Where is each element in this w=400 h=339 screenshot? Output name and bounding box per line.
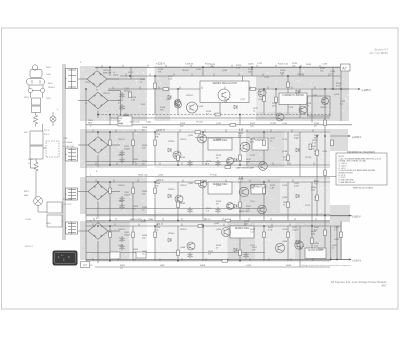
svg-text:Voltage (±) of each circuit is: Voltage (±) of each circuit is measured … [301,264,351,267]
svg-text:eff. 7 (sn B030): eff. 7 (sn B030) [370,51,388,55]
svg-text:Q408: Q408 [282,241,288,243]
svg-text:CR401: CR401 [118,229,125,231]
svg-text:VR210: VR210 [168,141,175,143]
svg-text:(225): (225) [113,75,118,77]
svg-text:T801: T801 [85,82,91,84]
svg-text:Q301: Q301 [188,183,194,185]
svg-text:C317: C317 [250,201,256,203]
svg-text:Section 4-7: Section 4-7 [374,48,388,52]
svg-text:VR131: VR131 [297,74,304,76]
svg-text:C105: C105 [140,104,146,106]
svg-text:C417: C417 [250,245,256,247]
svg-text:47µF: 47µF [294,186,300,188]
svg-text:Q206: Q206 [180,157,186,159]
svg-text:S801: S801 [24,97,30,99]
svg-text:TP8.6: TP8.6 [318,249,325,251]
svg-text:750µF: 750µF [124,235,131,237]
svg-text:C319: C319 [282,185,288,187]
svg-text:R133: R133 [306,64,312,66]
svg-text:C404: C404 [118,245,124,247]
svg-text:+100 V: +100 V [156,128,165,132]
svg-text:Q105: Q105 [222,70,228,72]
svg-text:Q103: Q103 [198,106,204,108]
svg-text:867: 867 [382,284,387,288]
svg-text:C219: C219 [282,139,288,141]
svg-text:T801: T801 [46,98,52,100]
svg-text:C230: C230 [322,151,328,153]
svg-text:R340 820: R340 820 [130,219,140,221]
svg-text:Q204: Q204 [216,139,222,141]
svg-text:C340: C340 [148,219,154,221]
svg-text:C108 33: C108 33 [185,64,194,66]
svg-text:+225 V: +225 V [156,62,165,66]
svg-text:(-)100 V: (-)100 V [352,215,361,218]
svg-text:NOTE 3: NOTE 3 [25,246,33,248]
svg-text:100µF: 100µF [292,230,299,232]
svg-text:TP225: TP225 [270,123,277,125]
svg-text:(-) 8.6 V: (-) 8.6 V [353,259,362,262]
svg-text:C419: C419 [282,229,288,231]
svg-text:BRIDGE: BRIDGE [103,73,112,75]
svg-text:C140: C140 [146,121,152,123]
svg-text:SELECTOR: SELECTOR [63,146,75,148]
svg-text:R140 2.2k: R140 2.2k [130,121,140,123]
svg-text:C204: C204 [118,155,124,157]
svg-text:R240 1.2k: R240 1.2k [138,175,148,177]
svg-text:TC801: TC801 [25,219,32,221]
svg-text:VR130: VR130 [320,107,327,109]
svg-text:R408: R408 [200,265,206,267]
svg-text:4-7: 4-7 [83,263,87,267]
svg-text:Q101: Q101 [166,99,172,101]
svg-text:C217: C217 [250,155,256,157]
svg-text:A6 Figures & E. Low Voltage P: A6 Figures & E. Low Voltage Power Boards [331,280,387,284]
svg-text:CR102: CR102 [103,93,110,95]
svg-text:250µF: 250µF [124,149,131,151]
svg-text:SEC: SEC [88,123,93,125]
svg-text:Q404: Q404 [216,229,222,231]
svg-text:C420: C420 [246,265,252,267]
svg-text:Q106: Q106 [248,64,254,66]
svg-text:C116: C116 [282,123,288,125]
svg-text:SERIES REGULATOR: SERIES REGULATOR [212,82,236,85]
svg-text:Q308: Q308 [282,197,288,199]
svg-text:R801: R801 [28,159,34,161]
svg-text:THERMAL: THERMAL [63,198,74,201]
svg-text:P801: P801 [46,67,52,69]
svg-text:1A SLO: 1A SLO [48,86,56,89]
svg-text:VOLTAGE: VOLTAGE [63,141,73,144]
svg-text:CUTOUT: CUTOUT [63,204,72,206]
svg-text:GND: GND [160,265,165,267]
svg-text:VR302: VR302 [180,185,187,187]
svg-text:1.8: 1.8 [239,128,244,132]
svg-text:+ -: + - [61,254,64,257]
svg-text:VR105: VR105 [182,70,189,72]
svg-text:TP15: TP15 [305,205,311,207]
svg-text:LINE: LINE [46,74,51,76]
svg-text:S802: S802 [46,223,52,225]
svg-text:33µF: 33µF [294,138,300,140]
svg-text:CR301: CR301 [118,185,125,187]
svg-text:500µF: 500µF [124,195,131,197]
svg-text:(+)225 V: (+)225 V [362,89,372,92]
svg-text:C111: C111 [216,123,222,125]
svg-text:L101: L101 [128,72,134,74]
svg-text:VR202: VR202 [180,139,187,141]
svg-text:R436: R436 [286,265,292,267]
svg-text:C131: C131 [312,95,318,97]
svg-text:C121: C121 [257,63,263,65]
svg-text:115 V: 115 V [44,130,50,132]
svg-text:TP 225: TP 225 [196,121,204,123]
svg-text:LINE: LINE [63,138,68,140]
svg-text:TP100: TP100 [305,157,312,159]
svg-text:B801: B801 [24,191,30,193]
svg-text:C126: C126 [288,107,294,109]
svg-text:CR201: CR201 [118,139,125,141]
svg-text:Q110: Q110 [334,94,340,96]
svg-text:Q306: Q306 [180,203,186,205]
svg-text:C442: C442 [334,239,340,241]
svg-text:Q406: Q406 [180,247,186,249]
svg-text:C106: C106 [118,123,124,125]
svg-text:PARTIAL A7 BOARD: PARTIAL A7 BOARD [353,187,374,190]
svg-text:C240: C240 [158,175,164,177]
svg-text:AMP ERROR AMP: AMP ERROR AMP [237,167,255,170]
svg-text:C115: C115 [264,77,270,79]
svg-text:Q401: Q401 [214,223,220,225]
svg-text:SERIES REG: SERIES REG [235,227,250,230]
svg-text:F801: F801 [48,83,54,85]
svg-text:CURRENT LIMITER: CURRENT LIMITER [282,94,304,97]
svg-text:230 V: 230 V [44,134,50,136]
svg-text:A7: A7 [342,66,346,70]
svg-text:1.8: 1.8 [141,218,146,222]
svg-text:Q201: Q201 [188,135,194,137]
svg-text:Q304: Q304 [216,185,222,187]
svg-text:C136: C136 [322,64,328,66]
svg-text:TP 15: TP 15 [205,219,211,221]
svg-text:C304: C304 [118,201,124,203]
svg-text:C110: C110 [196,69,202,71]
svg-text:Q208: Q208 [282,151,288,153]
svg-text:(+)100 V: (+)100 V [352,136,362,139]
svg-text:TP 100: TP 100 [210,175,218,177]
svg-text:9. SEE PARTS LIST: 9. SEE PARTS LIST [339,181,357,184]
svg-text:VR310: VR310 [168,189,175,191]
svg-text:VR402: VR402 [180,229,187,231]
svg-text:R123 1.5k: R123 1.5k [278,64,289,66]
svg-text:FAN: FAN [24,194,29,197]
svg-text:C117: C117 [240,99,246,101]
svg-text:VR104: VR104 [186,95,193,97]
svg-text:REFERENCE DIAGRAMS: REFERENCE DIAGRAMS [347,151,375,154]
svg-text:VR410: VR410 [168,233,175,235]
